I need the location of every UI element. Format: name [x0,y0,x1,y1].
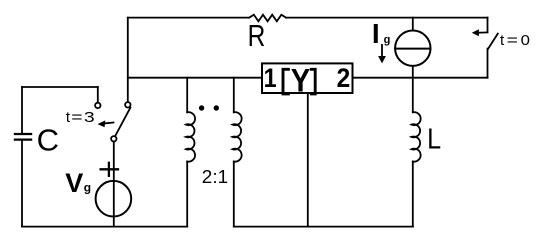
wire two-port bottom stub [307,93,309,227]
svg-text:=: = [71,109,83,126]
svg-text:0: 0 [521,32,530,49]
switch SW1 right terminal circle [125,102,130,107]
wire C-loop top horizontal [22,86,98,88]
voltage source V1 circle [96,181,132,217]
svg-text:g: g [384,34,391,46]
wire stub down to switch left terminal [97,87,99,103]
current source Ig reference arrow shaft [381,45,383,57]
current source I1 chord [395,48,430,50]
transformer dot secondary [214,105,219,110]
wire L bottom [412,162,414,227]
wire mid-left horizontal [128,77,262,79]
wire current source to L [412,66,414,112]
svg-text:1: 1 [264,63,277,93]
transformer T1 secondary bottom wire [233,162,235,227]
switch SW2 motion arrow head [472,29,479,36]
svg-text:3: 3 [84,109,95,126]
transformer T1 primary bottom wire [186,162,188,227]
switch SW2 motion arrow shaft [478,31,488,33]
capacitor C1 plates [15,134,31,140]
svg-text:R: R [248,18,266,53]
current source I1 top stub [412,18,414,31]
wire left vertical from top wire down to switch [127,18,129,103]
wire switch pole to source [113,142,115,227]
wire C-loop left vertical lower [21,141,23,227]
current source I1 circle [395,31,430,66]
inductor L1 coil [412,112,421,161]
transformer T1 primary coil [186,112,195,161]
svg-text:I: I [372,18,380,49]
label right bracket [310,69,315,94]
svg-text:2:1: 2:1 [202,167,228,187]
wire mid-right horizontal [353,77,488,79]
switch SW2 blade [488,34,498,49]
svg-text:C: C [37,123,59,158]
svg-text:2: 2 [337,63,351,93]
wire top horizontal left segment [128,17,249,19]
transformer dot primary [199,105,204,110]
switch SW2 lower vertical [487,49,489,78]
svg-text:L: L [427,124,441,156]
transformer T1 secondary top stub [233,78,235,113]
svg-text:=: = [507,32,519,49]
svg-text:g: g [84,180,91,194]
wire bottom-right horizontal [234,226,413,228]
wire top horizontal right segment [286,17,488,19]
resistor R1 zigzag [249,15,286,22]
svg-text:V: V [65,168,83,198]
two-port box U1 [262,63,353,93]
current source Ig reference arrow head [378,56,386,63]
switch SW1 motion arrow head [98,120,106,127]
transformer T1 secondary coil [233,112,242,161]
label left bracket [283,69,290,94]
wire C-loop left vertical upper [21,87,23,133]
switch SW1 motion arrow shaft [103,123,114,124]
switch SW1 pole terminal circle [111,136,116,141]
svg-text:Y: Y [291,62,311,98]
voltage source plus sign [101,163,118,176]
switch SW1 blade [115,108,130,137]
transformer T1 primary top stub [186,78,188,113]
wire bottom-left horizontal [22,226,187,228]
switch SW2 stub from top wire [487,18,489,33]
switch SW1 left terminal circle [95,103,100,108]
